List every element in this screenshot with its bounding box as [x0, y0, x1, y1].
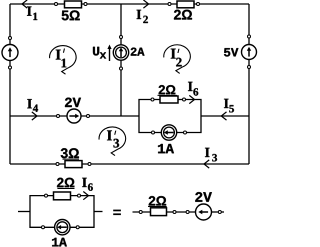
current source left [2, 45, 18, 61]
node bottom wire b [88, 163, 91, 166]
resistor 2ohm bottom-right [151, 208, 167, 216]
node middle wire b [87, 115, 90, 118]
node bottom-figure bottom b [76, 226, 79, 229]
arrow I6 subcircuit [189, 95, 194, 103]
label 2ohm bottom-right [149, 196, 166, 205]
node right wire a [248, 35, 251, 38]
label 5ohm [62, 10, 80, 20]
wire middle-left [10, 115, 139, 117]
label 2A [131, 48, 145, 56]
node subcircuit bottom a [152, 131, 155, 134]
label I6 subcircuit [188, 82, 193, 91]
mesh current I'3 [99, 127, 126, 149]
label I6 bottom-figure [82, 178, 87, 187]
wire terminal right [94, 211, 103, 213]
arrow I1 [22, 0, 27, 8]
resistor 3ohm [65, 161, 82, 168]
arrow Ux [109, 48, 111, 61]
node subcircuit top a [151, 98, 154, 101]
wire left [9, 4, 11, 164]
label I2 [137, 10, 142, 19]
voltage source 5V [242, 45, 257, 60]
current source 2A [113, 45, 128, 60]
node subcircuit bottom b [184, 131, 187, 134]
node bottom-figure top a [45, 194, 48, 197]
label 2ohm subcircuit [159, 85, 176, 94]
node bottom wire a [56, 163, 59, 166]
node bottom-right a [139, 211, 142, 214]
node center branch a [120, 36, 123, 39]
node center branch b [120, 67, 123, 70]
equals sign [113, 210, 121, 212]
label 2ohm top [174, 10, 192, 20]
arrow I2 [143, 0, 148, 8]
wire bottom-right [133, 211, 196, 213]
node top wire c [168, 3, 171, 6]
current source 1A subcircuit [161, 125, 176, 140]
wire terminal left [18, 211, 30, 213]
node top wire d [197, 3, 200, 6]
label 5V [224, 48, 238, 56]
voltage source 2V bottom-right [196, 204, 212, 220]
wire subcircuit loop [139, 100, 201, 133]
wire bottom-right end [212, 211, 225, 213]
label I4 [27, 99, 32, 108]
node bottom-right c [186, 211, 189, 214]
node bottom-figure top b [78, 194, 81, 197]
arrow I5 [221, 112, 226, 120]
wire top [10, 3, 249, 5]
label 1A subcircuit [158, 144, 174, 153]
resistor 2ohm top [177, 1, 194, 8]
wire bottom [10, 163, 249, 165]
voltage source 2V [67, 109, 81, 123]
label I1 [27, 7, 32, 16]
label Ux [93, 47, 99, 56]
label 2V bottom-right [195, 192, 212, 202]
mesh current I'1 [50, 46, 77, 68]
wire bottom-figure loop [30, 196, 94, 228]
label 2ohm bottom-figure [57, 178, 74, 187]
node bottom-right d [218, 211, 221, 214]
wire center branch [120, 4, 122, 116]
node bottom-figure bottom a [42, 226, 45, 229]
node middle wire a [57, 115, 60, 118]
wire right [248, 4, 250, 164]
arrow I6 bottom-figure [83, 192, 88, 200]
label 3ohm [61, 148, 79, 158]
label I3 [205, 148, 210, 157]
label 1A bottom-figure [52, 238, 67, 247]
resistor 2ohm bottom-figure [54, 192, 71, 200]
resistor 2ohm subcircuit [160, 96, 178, 103]
node top wire a [55, 3, 58, 6]
label I5 [224, 99, 229, 108]
mesh current I'2 [164, 45, 191, 67]
node right wire b [248, 66, 251, 69]
label 2V [65, 98, 81, 107]
node top wire b [84, 3, 87, 6]
node left wire a [9, 37, 12, 40]
arrow I3 [204, 160, 209, 168]
node left wire b [9, 66, 12, 69]
wire middle-right [201, 115, 249, 117]
node subcircuit top b [183, 98, 186, 101]
current source 1A bottom-figure [55, 220, 70, 235]
node bottom-right b [173, 211, 176, 214]
resistor 5ohm [65, 1, 82, 8]
arrow I4 [32, 112, 37, 120]
